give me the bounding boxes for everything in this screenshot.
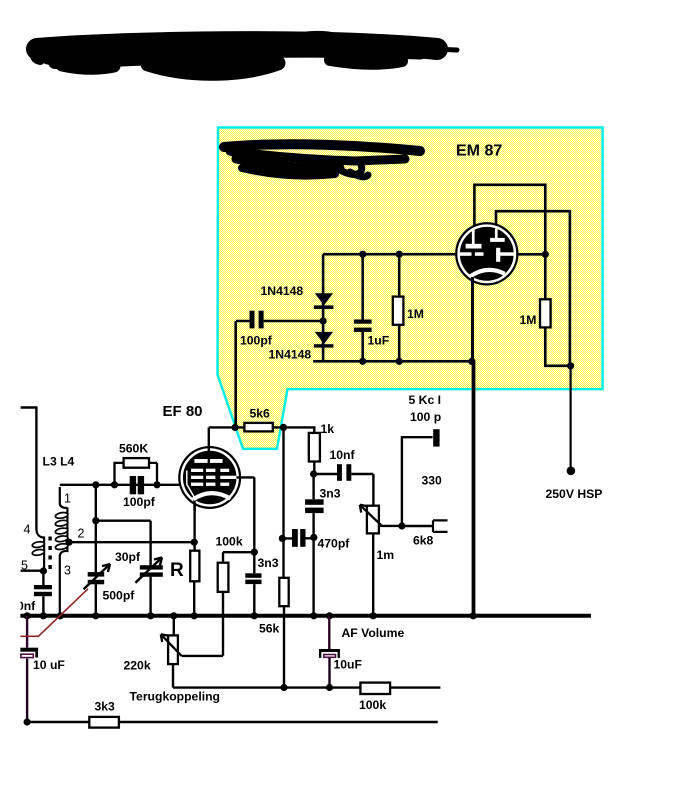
- resistor 560K: [115, 463, 158, 485]
- potentiometer 1m (tone): [372, 533, 374, 615]
- svg-text:1k: 1k: [321, 422, 335, 436]
- wire: EM87 cathode return rail: [313, 360, 472, 363]
- annotation line (dark red pointer): [20, 589, 88, 637]
- diode D2 1N4148: [315, 332, 333, 344]
- svg-text:AF Volume: AF Volume: [342, 626, 405, 640]
- wire: EF80 screen/cathode right branch: [253, 477, 255, 552]
- wire: antenna input top-left: [21, 408, 37, 530]
- svg-text:1m: 1m: [377, 548, 395, 562]
- wire: Terugkoppeling rail: [173, 686, 440, 688]
- capacitor 3n3 (lower): [253, 552, 255, 616]
- node tap2: [65, 539, 72, 546]
- wire: EM87 anode-1 to supply rail: [474, 185, 545, 299]
- resistor 6k8 (cut off): [402, 525, 433, 527]
- capacitor 10nf: [314, 474, 374, 506]
- callout box (yellow highlight region with funnel tail): [218, 128, 603, 449]
- svg-text:100pf: 100pf: [123, 495, 156, 509]
- wire: EM87 target to supply node: [515, 253, 546, 256]
- resistor 100k (left): [223, 552, 254, 656]
- resistor 3k3: [89, 717, 119, 728]
- capacitor 470pf: [279, 535, 286, 542]
- svg-text:6k8: 6k8: [413, 534, 434, 548]
- svg-text:1M: 1M: [407, 307, 424, 321]
- wire: EM87 grid bus (diode network top rail to tube grid): [323, 253, 458, 256]
- svg-text:100pf: 100pf: [240, 334, 273, 348]
- svg-text:5 Kc I: 5 Kc I: [409, 393, 442, 407]
- wire: tap 5: [21, 570, 44, 572]
- wire: bottom return rail: [27, 721, 438, 724]
- svg-text:5k6: 5k6: [250, 407, 271, 421]
- svg-text:10uF: 10uF: [334, 658, 362, 672]
- capacitor 500pf (variable): [88, 572, 105, 577]
- tube U1 EM87 (magic eye): [455, 222, 518, 285]
- wire: EM87 cathode down to chassis bus (thick): [471, 277, 474, 361]
- wire: tuning column x=96: [95, 485, 97, 616]
- capacitor 3n3 (screen decoupling): [312, 474, 314, 616]
- svg-text:1N4148: 1N4148: [269, 348, 312, 362]
- capacitor 10 uF (left electrolytic): [26, 616, 28, 648]
- wire: tap2 to EF80 cathode branch: [69, 541, 194, 543]
- node: diode midpoint junction: [320, 317, 327, 324]
- resistor 1M (right, anode load): [540, 299, 551, 327]
- svg-text:500pf: 500pf: [103, 589, 136, 603]
- capacitor 100p (5 Kc filter, cut off): [401, 437, 433, 526]
- tube V1 EF80: [178, 427, 254, 511]
- resistor 100k (bottom): [360, 683, 390, 694]
- inductor L3 (left winding): [36, 529, 44, 572]
- capacitor 10uF (right electrolytic): [328, 616, 330, 649]
- potentiometer 220k (feedback): [173, 616, 175, 636]
- svg-text:560K: 560K: [119, 442, 148, 456]
- terminal: 250V HSP: [567, 467, 576, 476]
- wire: 100pf down through funnel to 5k6 node: [234, 321, 237, 427]
- svg-text:100 p: 100 p: [410, 410, 441, 424]
- svg-text:250V HSP: 250V HSP: [546, 487, 603, 501]
- svg-text:Terugkoppeling: Terugkoppeling: [130, 690, 221, 704]
- svg-text:330: 330: [422, 474, 443, 488]
- svg-text:220k: 220k: [124, 659, 151, 673]
- wire: grid rail (L4 top to EF80 grid): [60, 484, 184, 486]
- resistor 5k6 (EF80 anode load): [232, 424, 239, 431]
- magnetic core (dashed): [48, 537, 51, 570]
- svg-text:1N4148: 1N4148: [261, 284, 304, 298]
- inductor L4 (main winding with taps 1,2,3): [60, 487, 68, 616]
- svg-text:L3 L4: L3 L4: [43, 455, 75, 469]
- svg-text:1uF: 1uF: [368, 334, 390, 348]
- capacitor 100nf (partially off-canvas label): [42, 571, 44, 616]
- wire: 1m wiper node: [379, 525, 402, 527]
- svg-text:100k: 100k: [359, 698, 386, 712]
- svg-text:1: 1: [64, 492, 71, 506]
- chassis bus (ground rail): [20, 614, 591, 618]
- wire: 250V HSP feed: [569, 366, 571, 468]
- wire: diode column: [322, 254, 325, 361]
- svg-text:3: 3: [64, 564, 71, 578]
- node 1k bottom: [313, 462, 315, 475]
- redaction scribble (top of page): [35, 36, 457, 73]
- svg-text:3n3: 3n3: [320, 487, 341, 501]
- svg-text:EF 80: EF 80: [163, 403, 203, 420]
- redaction scribble (inside callout): [224, 144, 420, 177]
- wire: screen column (5k6 right node down to 470pf and 56k): [282, 427, 284, 577]
- svg-text:4: 4: [24, 523, 31, 537]
- svg-text:1M: 1M: [520, 313, 537, 327]
- svg-text:R: R: [170, 560, 184, 581]
- capacitor C 1uF: [361, 254, 364, 361]
- svg-text:3k3: 3k3: [95, 700, 116, 714]
- wire: EM87 anode-2 loop to 250V feed: [496, 211, 570, 366]
- svg-text:3n3: 3n3: [258, 556, 279, 570]
- wire: branch to 30pf: [96, 521, 151, 616]
- svg-text:470pf: 470pf: [318, 537, 351, 551]
- resistor 56k: [279, 578, 288, 606]
- resistor R (cathode): [193, 499, 196, 616]
- capacitor 100pf (coupling into EM87 grid): [236, 320, 323, 323]
- svg-text:10nf: 10nf: [330, 448, 356, 462]
- svg-text:56k: 56k: [259, 622, 280, 636]
- capacitor 100pf (parallel with 560K): [130, 476, 136, 494]
- diode D1 1N4148: [315, 293, 333, 305]
- svg-text:100k: 100k: [216, 535, 243, 549]
- resistor 1M (grid leak, left): [398, 254, 401, 361]
- svg-text:30pf: 30pf: [115, 550, 141, 564]
- wire: 220k wiper to 100k bottom: [182, 655, 223, 657]
- svg-text:2: 2: [78, 527, 85, 541]
- capacitor 30pf (trimmer): [140, 565, 163, 569]
- svg-text:EM 87: EM 87: [456, 143, 502, 160]
- resistor 1k: [284, 427, 315, 433]
- svg-text:10 uF: 10 uF: [33, 658, 65, 672]
